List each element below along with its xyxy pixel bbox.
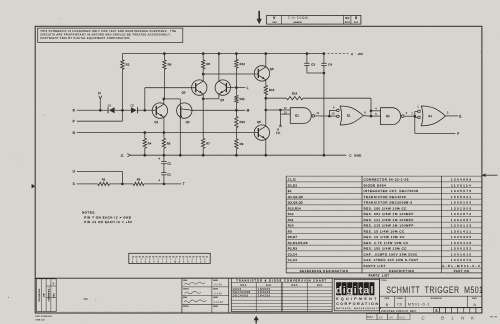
wire Q5 collector from R13 node: [265, 110, 267, 126]
signature block: [182, 278, 229, 313]
wire Q2 collector to node M: [192, 109, 245, 111]
resistor R10: [235, 110, 237, 116]
resistor R7: [202, 99, 204, 139]
proprietary notice box: [38, 28, 183, 42]
wire +5V top rail: [122, 53, 324, 55]
wire to node F: [414, 116, 416, 133]
resistor R14: [266, 97, 287, 99]
resistor R2: [121, 54, 123, 60]
wire Q5 emitter to ground: [265, 139, 267, 155]
ruler tick marks along bottom border: [60, 311, 268, 313]
transistor Q3: [192, 80, 207, 95]
transistor Q4: [215, 80, 230, 95]
capacitor C2: [163, 155, 165, 161]
op-amp gate E1 NAND #1: [290, 108, 311, 124]
wire ground rail: [130, 154, 346, 156]
resistor R4: [144, 133, 146, 139]
parts list table: [286, 175, 482, 177]
pin 11 output wire: [315, 115, 337, 117]
revisions block: [37, 279, 57, 312]
capacitor C3: [306, 54, 308, 64]
resistor R11: [235, 88, 237, 96]
transistor Q5: [254, 125, 269, 140]
gate E1 NOR #2: [337, 109, 340, 112]
wire Q4 base to node L: [226, 87, 245, 89]
pin 4 stub: [371, 110, 381, 112]
resistor R1: [98, 182, 110, 185]
wire to gate2 pin 9: [328, 110, 330, 116]
signatures handwriting: [184, 282, 205, 285]
zone marker triangle on left border: [32, 184, 36, 189]
pin 8 output wire: [363, 115, 371, 117]
capacitor C1: [161, 172, 166, 174]
bold down arrow above frame: [258, 11, 260, 21]
title block: [379, 278, 381, 313]
title block top line: [35, 277, 482, 279]
wire Q4 collector to rail: [218, 54, 220, 82]
handwritten up arrow below chart: [255, 318, 257, 324]
gate E1 NAND #3: [381, 108, 401, 125]
wire Q1 collector to Q2 base: [164, 98, 181, 100]
digital logo: [334, 279, 379, 311]
pin 12 stub: [280, 109, 290, 111]
drawing frame border: [35, 26, 482, 313]
module contact block: [129, 253, 210, 263]
wire Q6 collector to rail: [265, 54, 267, 67]
transistor Q1: [152, 103, 167, 118]
resistor R9: [235, 139, 238, 149]
test point K: [279, 114, 281, 126]
left arrow at parts list top right: [484, 174, 498, 176]
resistor R5: [163, 117, 165, 132]
wire Q2 emitter to ground: [179, 117, 181, 155]
distribution boxes below frame: [367, 314, 378, 320]
pin 6 output wire: [404, 115, 415, 117]
gate E1 NOR #4: [414, 111, 416, 117]
pin 5 stub: [370, 111, 372, 116]
node A +5V dashed stub: [328, 53, 349, 55]
capacitor C4: [323, 54, 325, 64]
wire C3/C4 common to ground: [307, 72, 324, 74]
resistor R3: [133, 182, 144, 185]
wire Q3 base feed from input node: [144, 88, 146, 111]
transistor Q6: [254, 66, 269, 81]
scan specks: [44, 115, 45, 116]
transistor Q2: [177, 103, 192, 118]
rotated drawing-number strip at top edge: [267, 15, 361, 24]
resistor R13: [265, 80, 267, 85]
pin 3 output wire to E: [446, 115, 459, 117]
wire Q3/Q4 emitters to R7: [202, 94, 204, 99]
wire R13 node to E1 pins 12/13: [266, 109, 281, 111]
transistor and diode conversion chart: [231, 278, 332, 311]
pencil smudge: [84, 298, 88, 299]
resistor R12: [235, 54, 237, 60]
resistor R8: [202, 54, 204, 60]
wire Q3 collector node to Q6 base: [203, 73, 258, 75]
resistor R6: [163, 54, 165, 60]
pin 13 stub: [279, 110, 281, 114]
